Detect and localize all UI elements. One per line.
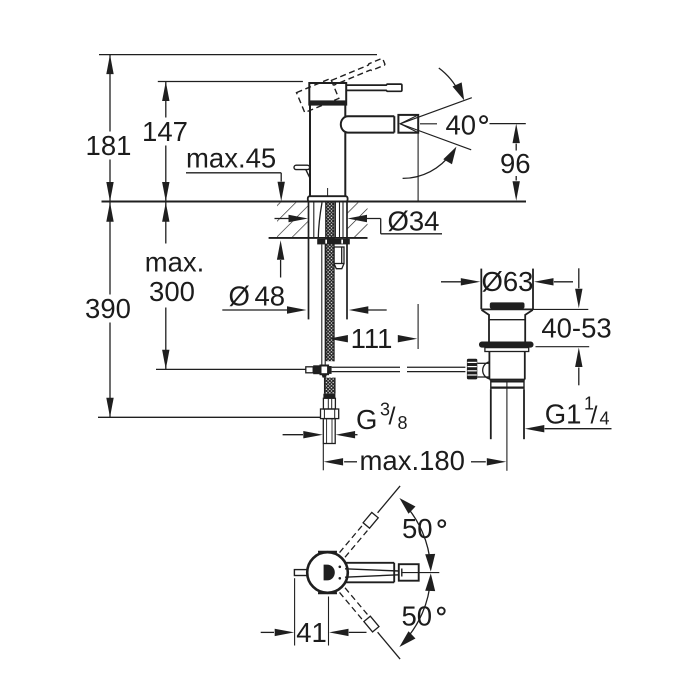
dimension 390 bbox=[85, 202, 131, 417]
bottom view dots bbox=[339, 566, 342, 569]
svg-text:48: 48 bbox=[255, 281, 286, 312]
dimension 96 bbox=[490, 124, 531, 201]
hose end dark collar bbox=[323, 394, 335, 399]
hose end collar nut bbox=[321, 409, 339, 419]
dimension diameter 48 bbox=[222, 281, 386, 314]
svg-text:max.180: max.180 bbox=[360, 445, 465, 476]
dimension 40-53 bbox=[533, 268, 612, 385]
vertical line from aerator to deck bbox=[417, 133, 419, 201]
dimension arrows G3/8 bbox=[283, 431, 358, 438]
svg-text:Ø34: Ø34 bbox=[388, 206, 440, 237]
swivel arrow lower bbox=[403, 144, 461, 178]
drain valve side port bbox=[477, 362, 489, 379]
mounting nut under deck bbox=[317, 239, 350, 245]
dimension diameter 34 bbox=[275, 206, 443, 237]
bottom view lever taper bbox=[345, 569, 399, 577]
faucet body left edge bbox=[309, 105, 311, 197]
spout bbox=[341, 116, 395, 132]
drain valve knob cap bbox=[490, 302, 525, 308]
reference line top of handle (181) bbox=[99, 54, 377, 56]
svg-text:8: 8 bbox=[398, 413, 408, 433]
mounting deck top surface bbox=[102, 201, 527, 203]
spray fan line lower bbox=[400, 124, 471, 150]
drain valve funnel neck bbox=[482, 310, 533, 342]
braided supply hose upper bbox=[326, 202, 334, 361]
rod tee connector square bbox=[321, 366, 329, 375]
dimension max.300 bbox=[145, 202, 205, 369]
bottom view pop-up knob tab bbox=[294, 570, 307, 576]
svg-text:4: 4 bbox=[600, 409, 610, 429]
extension line below supply tube bbox=[322, 444, 324, 470]
supply tube G3/8 bbox=[323, 419, 335, 444]
svg-text:147: 147 bbox=[142, 116, 188, 147]
label 50 degrees upper bbox=[402, 513, 445, 544]
shank lines in deck hole bbox=[314, 203, 343, 238]
spray fan line upper bbox=[400, 98, 472, 124]
drain valve knurled knob bbox=[467, 359, 477, 380]
spray axis leader bbox=[420, 123, 437, 125]
svg-text:96: 96 bbox=[500, 148, 531, 179]
label G1 1/4 with arrow bbox=[525, 394, 612, 433]
bottom view top flat bbox=[318, 551, 337, 553]
dimension 41 bbox=[261, 578, 367, 648]
drain valve top cylinder sides bbox=[480, 269, 482, 310]
rod tee connector right block bbox=[328, 366, 332, 374]
pop-up rod stub inside body bbox=[327, 188, 329, 196]
reference line bottom 390 bbox=[98, 416, 320, 418]
drain valve flange bbox=[479, 342, 534, 348]
faucet handle cap bbox=[309, 83, 346, 105]
deck hatching left bbox=[277, 203, 308, 238]
drain coupling bbox=[491, 380, 524, 390]
faucet body right edge lower bbox=[344, 133, 346, 197]
ray line upper 50 bbox=[378, 486, 401, 513]
base plinth bbox=[308, 196, 348, 201]
svg-text:max.45: max.45 bbox=[186, 143, 276, 174]
svg-text:Ø63: Ø63 bbox=[482, 266, 534, 297]
svg-text:300: 300 bbox=[149, 276, 195, 307]
svg-text:181: 181 bbox=[86, 130, 132, 161]
hose end nut body bbox=[323, 398, 335, 409]
swing arc upper with arrows bbox=[396, 494, 436, 571]
svg-text:/: / bbox=[591, 402, 598, 430]
bottom view dashed lever lower bbox=[339, 587, 379, 632]
svg-text:50: 50 bbox=[402, 601, 433, 632]
bottom view cartridge D mark bbox=[324, 565, 335, 581]
pop-up knob on body bbox=[294, 165, 310, 183]
svg-text:/: / bbox=[389, 403, 396, 431]
rod tee connector lower clip bbox=[322, 375, 327, 378]
extension line diameter 48 left bbox=[308, 202, 310, 319]
mounting stud bbox=[334, 247, 344, 269]
svg-text:Ø: Ø bbox=[229, 281, 250, 312]
bottom view spout bbox=[345, 563, 394, 583]
faucet cap dark band bbox=[309, 100, 346, 104]
extension line diameter 48 right bbox=[346, 202, 348, 319]
label G3/8 bbox=[356, 400, 408, 436]
dimension max.45 bbox=[186, 143, 285, 278]
svg-text:390: 390 bbox=[85, 293, 131, 324]
bottom view faucet body circle bbox=[307, 552, 348, 593]
mounting deck bottom surface bbox=[269, 237, 368, 239]
svg-text:40: 40 bbox=[446, 110, 477, 141]
dimension diameter 63 bbox=[441, 266, 573, 297]
faucet body right edge upper bbox=[344, 105, 346, 117]
drain valve body bbox=[489, 352, 524, 380]
svg-text:G: G bbox=[356, 404, 377, 435]
label 50 degrees lower bbox=[402, 601, 445, 632]
deck hatching right bbox=[348, 203, 368, 238]
lever handle (solid) bbox=[346, 84, 402, 91]
bottom view lever neck line bbox=[401, 569, 403, 577]
reference line top of lever (147) bbox=[158, 81, 303, 83]
drain valve ring under flange bbox=[485, 348, 529, 352]
svg-text:41: 41 bbox=[296, 617, 327, 648]
svg-text:max.: max. bbox=[145, 247, 205, 278]
rod tee connector small sleeve bbox=[306, 367, 313, 373]
drain pipe G1 1/4 bbox=[491, 389, 524, 439]
aerator cone lines bbox=[400, 115, 418, 133]
aerator bbox=[398, 115, 418, 133]
horizontal pop-up rod to drain bbox=[332, 367, 466, 371]
lever handle raised (dashed) bbox=[296, 57, 390, 112]
ray line lower 50 bbox=[378, 632, 401, 659]
swivel arrow upper bbox=[439, 68, 469, 102]
drain valve top cylinder bottom edge bbox=[481, 308, 533, 310]
bottom view dashed lever upper bbox=[339, 512, 379, 557]
swing arc lower with arrows bbox=[396, 573, 436, 650]
dimension 111 bbox=[328, 304, 418, 354]
dimension 147 bbox=[142, 82, 188, 202]
pop-up pull rod below deck bbox=[322, 244, 325, 365]
svg-text:111: 111 bbox=[351, 323, 393, 354]
dimension max.180 bbox=[324, 445, 507, 476]
label 40 degrees bbox=[446, 110, 488, 141]
reference line bottom max.300 bbox=[156, 368, 306, 370]
drain centerline bbox=[506, 382, 508, 471]
rod tee connector black block bbox=[313, 365, 320, 374]
braided hose lower section bbox=[325, 378, 335, 394]
svg-text:50: 50 bbox=[402, 513, 433, 544]
bottom view bottom flat bbox=[318, 592, 337, 594]
bottom view centerline bbox=[402, 572, 439, 574]
hose curve in deck hole bbox=[318, 203, 322, 238]
dimension 181 bbox=[86, 55, 132, 202]
bottom view lever tip box bbox=[399, 564, 419, 581]
svg-text:40-53: 40-53 bbox=[541, 313, 611, 344]
svg-text:G1: G1 bbox=[545, 399, 582, 430]
